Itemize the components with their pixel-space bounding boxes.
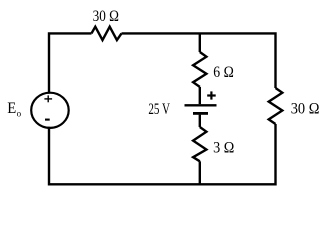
- svg-text:6 Ω: 6 Ω: [213, 64, 234, 81]
- svg-text:E: E: [7, 100, 16, 117]
- svg-text:25 V: 25 V: [148, 101, 170, 118]
- svg-text:o: o: [17, 109, 22, 119]
- svg-text:30 Ω: 30 Ω: [291, 101, 320, 118]
- svg-text:3 Ω: 3 Ω: [213, 140, 234, 157]
- svg-text:30 Ω: 30 Ω: [93, 8, 119, 25]
